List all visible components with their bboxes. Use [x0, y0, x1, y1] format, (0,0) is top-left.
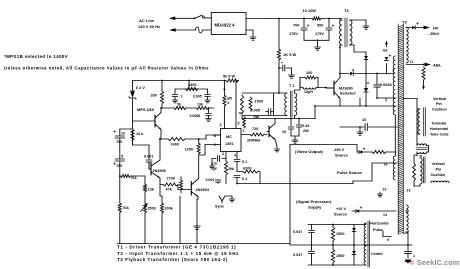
svg-text:Horizontal: Horizontal	[370, 222, 389, 226]
svg-text:5: 5	[238, 122, 240, 126]
svg-text:0.047: 0.047	[293, 253, 303, 257]
svg-text:10: 10	[362, 118, 366, 122]
svg-text:13k: 13k	[148, 188, 155, 192]
svg-text:8: 8	[406, 210, 408, 214]
svg-text:Source: Source	[335, 154, 348, 158]
svg-text:2700: 2700	[167, 177, 175, 181]
svg-text:0.1: 0.1	[242, 177, 247, 181]
svg-text:0.1: 0.1	[242, 160, 247, 164]
svg-text:16: 16	[384, 163, 388, 167]
svg-text:ABL: ABL	[433, 63, 442, 68]
svg-text:100: 100	[306, 71, 312, 75]
svg-text:Pulse: Pulse	[373, 228, 383, 232]
svg-text:Cushion: Cushion	[432, 108, 447, 112]
svg-text:2500: 2500	[148, 207, 156, 211]
svg-text:2N3906: 2N3906	[153, 169, 166, 173]
svg-text:Pin: Pin	[436, 102, 442, 106]
svg-text:Unless otherwise noted, All Ca: Unless otherwise noted, All Capacitance …	[4, 66, 209, 71]
svg-text:175V: 175V	[289, 32, 298, 36]
svg-text:13: 13	[407, 189, 411, 193]
svg-text:MPS U60: MPS U60	[137, 107, 155, 112]
svg-text:MJ3680: MJ3680	[339, 87, 353, 91]
svg-text:1200: 1200	[185, 148, 193, 152]
svg-text:470: 470	[211, 162, 217, 166]
svg-text:1: 1	[181, 95, 183, 99]
svg-text:1500: 1500	[336, 254, 344, 258]
svg-text:Cushion: Cushion	[431, 173, 446, 177]
svg-text:0.0068: 0.0068	[380, 83, 392, 87]
svg-text:k: k	[228, 101, 230, 105]
svg-text:0.0068: 0.0068	[190, 114, 201, 118]
svg-text:0.047: 0.047	[293, 230, 303, 234]
svg-text:MC: MC	[226, 135, 232, 139]
svg-text:T2 - Input Transformer 1:1 +: T2 - Input Transformer 1:1 + 15 mH @ 15 …	[117, 251, 239, 256]
svg-text:720: 720	[252, 127, 258, 131]
svg-text:330: 330	[151, 94, 157, 98]
svg-text:MDA922 4: MDA922 4	[215, 22, 236, 27]
svg-text:AC Line: AC Line	[139, 18, 155, 23]
svg-text:9: 9	[387, 238, 389, 242]
svg-text:5k: 5k	[239, 112, 243, 116]
svg-text:SeekIC.com: SeekIC.com	[417, 259, 459, 267]
svg-text:5k: 5k	[177, 103, 181, 107]
svg-text:Vertical: Vertical	[432, 162, 445, 166]
svg-text:3: 3	[385, 98, 387, 102]
svg-text:Vertical: Vertical	[433, 97, 446, 101]
svg-text:10 k: 10 k	[136, 132, 144, 136]
svg-text:1: 1	[243, 129, 245, 133]
svg-text:13k: 13k	[197, 103, 203, 107]
svg-text:(Signal Processor): (Signal Processor)	[296, 199, 332, 204]
svg-text:1: 1	[413, 254, 415, 258]
svg-text:2400: 2400	[171, 143, 179, 147]
svg-text:175V: 175V	[315, 32, 324, 36]
svg-text:Selected: Selected	[340, 92, 356, 96]
svg-text:2N5466: 2N5466	[247, 139, 260, 143]
svg-text:100k: 100k	[165, 207, 174, 211]
svg-text:7: 7	[406, 231, 408, 235]
svg-text:Yoke Coils: Yoke Coils	[430, 133, 449, 137]
svg-text:39k: 39k	[228, 167, 234, 171]
svg-text:HV: HV	[433, 26, 439, 31]
svg-text:Horizontal: Horizontal	[430, 127, 448, 131]
svg-text:T3 Flyback Transformer (Sea: T3 Flyback Transformer (Sears #80 164-2)	[117, 257, 228, 262]
svg-text:10: 10	[383, 188, 387, 192]
svg-text:1K 5 W: 1K 5 W	[283, 52, 297, 57]
svg-text:2N3904: 2N3904	[196, 188, 210, 192]
svg-text:3300: 3300	[188, 83, 196, 87]
svg-text:160: 160	[227, 97, 233, 101]
svg-text:0.005: 0.005	[251, 109, 261, 113]
svg-text:-190 V: -190 V	[333, 148, 345, 152]
svg-text:G2: G2	[383, 49, 388, 53]
svg-text:700: 700	[293, 24, 299, 28]
svg-text:(Video Output): (Video Output)	[295, 149, 323, 154]
svg-text:47k: 47k	[166, 188, 173, 192]
svg-text:10 10W: 10 10W	[303, 8, 317, 13]
svg-text:Supply: Supply	[308, 205, 322, 210]
svg-text:T1 - Driver Transformer (GE ≠: T1 - Driver Transformer (GE ≠ 73C1B2195 …	[117, 245, 236, 250]
svg-text:T3: T3	[402, 20, 407, 25]
svg-text:4: 4	[234, 154, 236, 158]
svg-text:10μH: 10μH	[304, 90, 313, 94]
svg-text:μF: μF	[213, 167, 217, 171]
svg-text:6 2 V: 6 2 V	[136, 86, 145, 90]
svg-text:120 V 60 Hz: 120 V 60 Hz	[138, 24, 160, 29]
svg-text:10: 10	[121, 131, 125, 135]
svg-text:T 1: T 1	[289, 84, 295, 88]
svg-text:Pulse Source: Pulse Source	[337, 170, 363, 175]
svg-text:14: 14	[383, 213, 387, 217]
svg-text:500: 500	[317, 24, 323, 28]
svg-text:Pin: Pin	[436, 168, 442, 172]
svg-text:Sync: Sync	[215, 205, 224, 209]
svg-text:*MPS1B selected to 1400V: *MPS1B selected to 1400V	[4, 54, 68, 59]
svg-text:5k 5 W: 5k 5 W	[223, 75, 235, 79]
svg-text:Center: Center	[371, 252, 384, 256]
svg-text:T2: T2	[344, 8, 349, 13]
svg-text:91k: 91k	[123, 206, 129, 210]
svg-text:1500: 1500	[336, 232, 344, 236]
svg-text:2: 2	[393, 69, 395, 73]
svg-text:3: 3	[222, 152, 224, 156]
svg-text:3: 3	[220, 123, 222, 127]
svg-text:75V: 75V	[116, 140, 123, 144]
svg-text:+20 V: +20 V	[336, 207, 346, 211]
svg-text:10: 10	[282, 130, 286, 134]
svg-text:2W: 2W	[303, 129, 309, 133]
svg-text:5: 5	[121, 155, 123, 159]
svg-text:Toroidal: Toroidal	[432, 122, 446, 126]
svg-text:- 25kV: - 25kV	[428, 31, 440, 36]
svg-text:Source: Source	[334, 213, 347, 217]
svg-text:2: 2	[214, 143, 216, 147]
svg-text:©: ©	[410, 260, 415, 267]
svg-text:1500: 1500	[255, 100, 263, 104]
svg-text:1391: 1391	[225, 142, 233, 146]
svg-text:0.004: 0.004	[206, 178, 215, 182]
svg-text:0.33: 0.33	[302, 124, 309, 128]
svg-text:11: 11	[410, 60, 414, 64]
svg-text:0.005: 0.005	[193, 95, 202, 99]
svg-text:+: +	[281, 61, 283, 65]
